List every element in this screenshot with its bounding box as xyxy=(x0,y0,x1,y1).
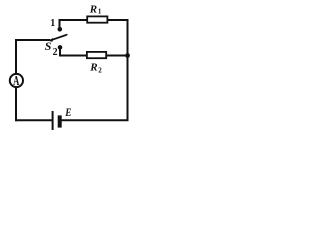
wire: top horizontal through R1 xyxy=(60,20,129,29)
svg-text:R: R xyxy=(89,4,97,16)
svg-text:E: E xyxy=(64,106,71,119)
wire: left vertical lower segment xyxy=(15,87,17,122)
switch S: arrowhead on blade xyxy=(48,38,53,42)
svg-text:1: 1 xyxy=(98,8,102,16)
switch S: contact 1 dot xyxy=(58,27,63,32)
svg-text:S: S xyxy=(45,39,52,53)
wire: battery to bottom right corner and right vertical xyxy=(62,19,128,120)
battery E: short thick plate xyxy=(58,115,62,127)
wire: bottom left to battery xyxy=(15,119,52,121)
battery E: long plate xyxy=(52,111,54,130)
svg-text:2: 2 xyxy=(98,66,102,74)
svg-text:1: 1 xyxy=(50,18,55,29)
svg-text:A: A xyxy=(13,74,20,88)
wire: left vertical upper segment xyxy=(16,40,50,75)
resistor R2 xyxy=(87,52,106,58)
ammeter A xyxy=(10,74,23,87)
switch S: contact 2 dot xyxy=(58,45,63,50)
wire: R2 horizontal xyxy=(60,47,128,56)
node: junction R2/right wire xyxy=(125,53,130,58)
svg-text:2: 2 xyxy=(53,47,58,58)
switch S: blade xyxy=(51,35,66,40)
resistor R1 xyxy=(87,16,107,22)
svg-text:R: R xyxy=(89,62,97,74)
